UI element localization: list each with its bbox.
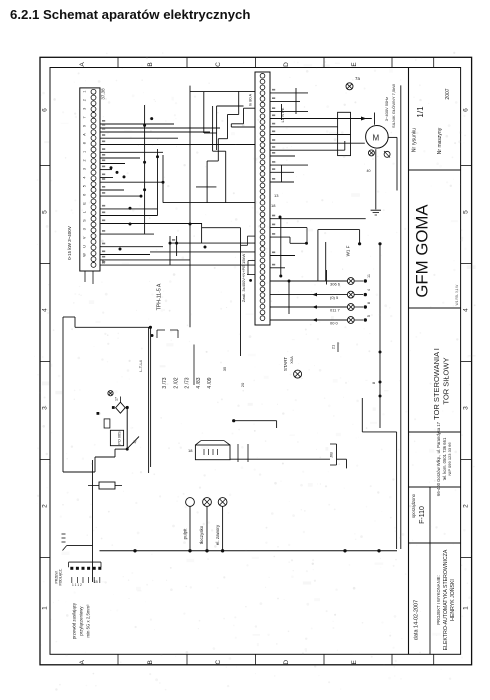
svg-text:D: D bbox=[283, 660, 290, 665]
svg-text:3~400V 50Hz: 3~400V 50Hz bbox=[384, 97, 389, 121]
svg-text:data 14-02-2007: data 14-02-2007 bbox=[414, 600, 420, 640]
svg-text:7a: 7a bbox=[355, 76, 361, 81]
svg-text:B: B bbox=[147, 62, 154, 66]
svg-text:START: START bbox=[283, 357, 288, 372]
svg-text:4: 4 bbox=[83, 177, 87, 179]
svg-text:(0) 5: (0) 5 bbox=[330, 295, 339, 300]
svg-text:21: 21 bbox=[331, 344, 336, 349]
svg-text:0-15 kW 3~400V: 0-15 kW 3~400V bbox=[67, 226, 72, 260]
svg-text:SILNIK GŁÓWNY 7,5kW: SILNIK GŁÓWNY 7,5kW bbox=[391, 84, 396, 128]
svg-text:A: A bbox=[79, 62, 86, 67]
svg-text:6: 6 bbox=[42, 108, 49, 112]
svg-text:E: E bbox=[351, 62, 358, 67]
svg-text:S: S bbox=[83, 219, 87, 222]
svg-text:37,38: 37,38 bbox=[101, 88, 106, 100]
svg-text:min 5G x 2,5mm²: min 5G x 2,5mm² bbox=[86, 604, 91, 638]
svg-text:L1 N PE: L1 N PE bbox=[280, 107, 285, 122]
svg-text:PROJEKT I WYKONANIE:: PROJEKT I WYKONANIE: bbox=[436, 575, 441, 624]
svg-text:NIP 099 123 33 66: NIP 099 123 33 66 bbox=[447, 442, 452, 476]
svg-text:4 /83: 4 /83 bbox=[196, 377, 202, 388]
svg-text:PO 06S: PO 06S bbox=[118, 431, 122, 445]
svg-text:8: 8 bbox=[371, 381, 376, 384]
svg-text:2 /73: 2 /73 bbox=[185, 377, 191, 388]
svg-text:3: 3 bbox=[463, 406, 470, 410]
svg-text:Nr maszyny: Nr maszyny bbox=[437, 127, 443, 154]
svg-text:13: 13 bbox=[274, 193, 279, 198]
svg-text:A: A bbox=[83, 133, 87, 136]
svg-text:9: 9 bbox=[83, 125, 87, 127]
svg-text:15: 15 bbox=[94, 580, 98, 584]
svg-text:Zasil. 3x400V+N+PE 15kW: Zasil. 3x400V+N+PE 15kW bbox=[241, 254, 246, 303]
svg-text:el. zawory: el. zawory bbox=[215, 524, 220, 545]
svg-text:2007: 2007 bbox=[445, 88, 451, 99]
svg-text:2: 2 bbox=[463, 504, 470, 508]
svg-text:4: 4 bbox=[463, 308, 470, 312]
svg-text:E: E bbox=[351, 659, 358, 664]
svg-text:6: 6 bbox=[463, 108, 470, 112]
svg-text:D: D bbox=[283, 62, 290, 67]
svg-text:3 /73: 3 /73 bbox=[162, 377, 168, 388]
svg-text:011 7: 011 7 bbox=[330, 308, 340, 313]
svg-text:1: 1 bbox=[83, 91, 87, 93]
svg-text:pulpit: pulpit bbox=[183, 528, 188, 540]
svg-text:V: V bbox=[83, 236, 87, 239]
svg-text:18: 18 bbox=[271, 203, 276, 208]
svg-text:8: 8 bbox=[83, 142, 87, 144]
svg-text:W: W bbox=[83, 253, 87, 257]
svg-text:1: 1 bbox=[83, 151, 87, 153]
svg-text:17: 17 bbox=[115, 397, 119, 401]
svg-text:18: 18 bbox=[188, 448, 193, 453]
svg-text:L-T-L4: L-T-L4 bbox=[138, 359, 143, 371]
svg-text:2: 2 bbox=[83, 159, 87, 161]
svg-text:3: 3 bbox=[83, 168, 87, 170]
svg-text:1/1: 1/1 bbox=[416, 106, 425, 118]
svg-text:HENRYK JOŃSKI: HENRYK JOŃSKI bbox=[449, 579, 456, 621]
svg-text:8: 8 bbox=[367, 302, 371, 304]
svg-text:ELEKTRO-AUTOMATYKA STEROWNICZA: ELEKTRO-AUTOMATYKA STEROWNICZA bbox=[443, 549, 449, 650]
svg-text:00 0: 00 0 bbox=[330, 321, 339, 326]
svg-text:3: 3 bbox=[83, 108, 87, 110]
svg-text:2: 2 bbox=[42, 504, 49, 508]
svg-text:U: U bbox=[83, 245, 87, 248]
svg-text:1: 1 bbox=[463, 606, 470, 610]
svg-text:F-110: F-110 bbox=[419, 506, 426, 524]
svg-text:X5A: X5A bbox=[289, 356, 294, 364]
svg-text:35: 35 bbox=[222, 366, 227, 371]
svg-text:B: B bbox=[147, 660, 154, 664]
svg-text:5: 5 bbox=[83, 185, 87, 187]
svg-text:7: 7 bbox=[83, 116, 87, 118]
svg-text:5: 5 bbox=[463, 210, 470, 214]
svg-text:A: A bbox=[79, 659, 86, 664]
svg-text:1 1 1 2: 1 1 1 2 bbox=[72, 583, 82, 587]
svg-text:TOR STEROWANIA I: TOR STEROWANIA I bbox=[432, 348, 441, 420]
svg-text:11: 11 bbox=[367, 274, 371, 278]
svg-text:5: 5 bbox=[42, 210, 49, 214]
svg-text:3: 3 bbox=[42, 406, 49, 410]
svg-text:W1 F: W1 F bbox=[346, 245, 351, 256]
svg-text:1: 1 bbox=[42, 606, 49, 610]
svg-text:C: C bbox=[215, 62, 222, 67]
svg-text:sporządzono: sporządzono bbox=[411, 493, 416, 518]
svg-text:E: E bbox=[83, 202, 87, 205]
svg-text:L: L bbox=[83, 211, 87, 213]
svg-text:tłoczysko: tłoczysko bbox=[199, 525, 204, 544]
svg-text:4 /09: 4 /09 bbox=[207, 377, 213, 388]
svg-text:4: 4 bbox=[367, 289, 371, 291]
svg-text:przyłączeniowy: przyłączeniowy bbox=[79, 606, 84, 636]
svg-text:5: 5 bbox=[367, 315, 371, 317]
svg-text:In 80 A: In 80 A bbox=[248, 93, 253, 106]
svg-text:Nr rysunku: Nr rysunku bbox=[412, 128, 418, 152]
svg-text:20: 20 bbox=[240, 382, 245, 387]
svg-text:2: 2 bbox=[83, 99, 87, 101]
svg-text:przewód zasilający: przewód zasilający bbox=[72, 602, 77, 639]
svg-text:40: 40 bbox=[367, 169, 371, 173]
svg-text:2 /02: 2 /02 bbox=[173, 377, 179, 388]
svg-text:6: 6 bbox=[83, 194, 87, 196]
svg-text:JIB: JIB bbox=[329, 452, 334, 458]
svg-text:W1 R5L 3.1 W: W1 R5L 3.1 W bbox=[455, 285, 459, 306]
svg-text:66-400 Gorzów Wlkp., ul. Paran: 66-400 Gorzów Wlkp., ul. Parandysa 17 bbox=[436, 421, 441, 496]
svg-text:C: C bbox=[215, 660, 222, 665]
